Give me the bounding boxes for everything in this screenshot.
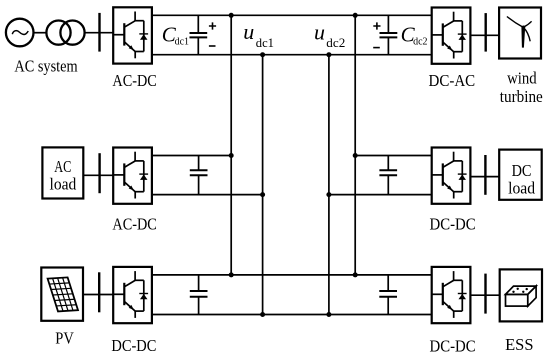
- node dot bus4 mid row: [353, 153, 358, 158]
- svg-text:dc1: dc1: [256, 35, 274, 50]
- ESS cuboid right face: [528, 286, 536, 306]
- bus bar bottom-left: [98, 272, 100, 312]
- capacitor mid-left lower lead: [198, 175, 200, 194]
- converter U1 AC-DC (top-left): [113, 7, 152, 63]
- bus line 2 (from bottom rail): [262, 55, 264, 315]
- svg-text:DC-DC: DC-DC: [430, 215, 476, 234]
- AC load box: [42, 147, 83, 198]
- svg-text:DC-DC: DC-DC: [430, 336, 476, 355]
- svg-text:PV: PV: [55, 329, 74, 348]
- ESS cuboid top face: [506, 286, 537, 294]
- wire U6 to ESS: [470, 294, 499, 296]
- transformer T1 secondary circle: [60, 20, 84, 44]
- wind turbine box: [499, 8, 541, 59]
- capacitor Cdc1 plates: [190, 33, 208, 37]
- AC source sine wave: [12, 31, 28, 35]
- wind turbine blade upper-left: [507, 17, 524, 28]
- svg-text:DC: DC: [512, 161, 532, 180]
- bus bar top-left: [98, 13, 100, 52]
- node dot bus4 bottom: [353, 272, 358, 277]
- wire AC load to converter: [83, 174, 113, 176]
- converter U6 DC-DC (bottom-right): [432, 267, 471, 323]
- converter U4 DC-AC (top-right): [432, 8, 471, 64]
- plus sign Cdc2: [373, 22, 380, 29]
- bottom row top wire (positive): [152, 274, 432, 276]
- capacitor mid-right lower lead: [387, 175, 389, 194]
- bus bar top-right: [485, 13, 487, 52]
- capacitor mid-left upper lead: [198, 156, 200, 171]
- svg-text:AC: AC: [54, 157, 71, 176]
- node dot bus3 bottom: [326, 312, 331, 317]
- capacitor mid-right upper lead: [387, 156, 389, 171]
- PV box: [41, 268, 83, 321]
- capacitor bottom-left plates: [190, 291, 208, 297]
- top DC rail (positive): [152, 14, 432, 16]
- minus sign Cdc2: [373, 47, 380, 49]
- capacitor bottom-right lower lead: [387, 297, 389, 315]
- node dot bus1 bottom: [229, 272, 234, 277]
- wire bus3 to U5 bottom input: [329, 194, 432, 196]
- node dot bottom rail / bus2: [260, 52, 265, 57]
- capacitor mid-right plates: [379, 170, 397, 175]
- node dot bus2 mid row: [260, 192, 265, 197]
- capacitor Cdc2 lower lead: [387, 37, 389, 54]
- wind turbine blade lower-right: [524, 28, 531, 42]
- svg-text:u: u: [243, 19, 254, 44]
- bottom DC rail (negative): [152, 54, 432, 56]
- svg-text:AC-DC: AC-DC: [112, 71, 156, 90]
- wind turbine blade right: [524, 21, 532, 27]
- bus line 1 (from top rail): [230, 15, 232, 275]
- converter U3 DC-DC (bottom-left): [113, 267, 152, 323]
- capacitor Cdc2 upper lead: [387, 15, 389, 33]
- bus line 4 (from top rail): [354, 15, 356, 275]
- wire U2 top output to bus1: [152, 155, 231, 157]
- svg-text:load: load: [50, 174, 77, 193]
- svg-text:dc1: dc1: [175, 36, 189, 47]
- plus sign Cdc1: [209, 22, 216, 29]
- svg-text:AC-DC: AC-DC: [112, 215, 156, 234]
- transformer T1 primary circle: [46, 20, 70, 44]
- wind turbine hub: [522, 26, 525, 29]
- svg-text:AC system: AC system: [14, 56, 77, 75]
- svg-text:ESS: ESS: [505, 335, 533, 354]
- svg-text:DC-DC: DC-DC: [111, 336, 156, 355]
- bus bar mid-left: [98, 153, 100, 193]
- capacitor Cdc1 lower lead: [197, 37, 199, 54]
- bottom row bottom wire (negative): [152, 314, 432, 316]
- svg-text:turbine: turbine: [500, 87, 543, 106]
- wire transformer to AC-DC converter: [84, 32, 113, 34]
- ESS cuboid dots: [517, 288, 519, 290]
- capacitor bottom-right upper lead: [387, 275, 389, 291]
- AC source G1 circle: [6, 19, 34, 47]
- ESS cuboid front face: [506, 294, 528, 306]
- capacitor Cdc1 upper lead: [197, 15, 199, 33]
- wire AC source to transformer: [34, 32, 47, 34]
- wire U2 bottom output to bus2: [152, 194, 263, 196]
- ESS box: [500, 269, 542, 321]
- node dot bus1 mid row: [229, 153, 234, 158]
- DC load box: [499, 150, 542, 200]
- bus bar mid-right: [484, 155, 486, 195]
- capacitor mid-left plates: [190, 170, 208, 175]
- minus sign Cdc1: [209, 45, 216, 47]
- svg-text:dc2: dc2: [413, 36, 427, 47]
- node dot bottom rail / bus3: [326, 52, 331, 57]
- PV panel icon: [48, 277, 78, 311]
- converter U5 DC-DC (mid-right): [432, 148, 471, 204]
- node dot top rail / bus4: [353, 13, 358, 18]
- capacitor bottom-right plates: [379, 291, 397, 297]
- converter U2 AC-DC (mid-left): [113, 148, 152, 204]
- wire bus4 to U5 top input: [355, 155, 432, 157]
- wire U5 to DC load: [470, 176, 499, 178]
- wire PV to converter: [83, 294, 113, 296]
- bus line 3 (from bottom rail): [328, 55, 330, 315]
- svg-text:load: load: [508, 179, 535, 198]
- svg-text:DC-AC: DC-AC: [429, 71, 476, 90]
- svg-text:u: u: [314, 19, 325, 44]
- wire DC-AC to wind turbine: [470, 34, 499, 36]
- capacitor bottom-left lower lead: [198, 297, 200, 315]
- node dot bus3 mid row: [326, 192, 331, 197]
- bus bar bottom-right: [484, 274, 486, 314]
- wind turbine tower: [521, 27, 525, 48]
- capacitor Cdc2 plates: [380, 33, 398, 37]
- node dot top rail / bus1: [229, 13, 234, 18]
- capacitor bottom-left upper lead: [198, 275, 200, 291]
- node dot bus2 bottom: [260, 312, 265, 317]
- svg-text:dc2: dc2: [326, 35, 345, 50]
- svg-text:wind: wind: [507, 68, 537, 87]
